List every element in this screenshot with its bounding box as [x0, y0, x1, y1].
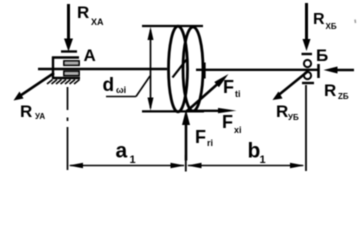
- svg-text:ХБ: ХБ: [326, 22, 337, 31]
- gear bottom line: [142, 110, 204, 112]
- label R_zB: [324, 81, 349, 101]
- svg-text:R: R: [20, 102, 32, 121]
- centerline below support A: [67, 87, 69, 170]
- svg-text:1: 1: [260, 154, 266, 166]
- svg-text:А: А: [84, 46, 96, 65]
- svg-text:ti: ti: [235, 89, 241, 99]
- svg-text:xi: xi: [234, 125, 242, 135]
- dimension b1: [188, 165, 303, 167]
- gear right ellipse: [183, 27, 203, 111]
- force F_ti arrow: [187, 74, 229, 111]
- force R_yB arrow: [273, 72, 308, 100]
- gear helix line: [173, 60, 187, 78]
- label F_xi: [222, 112, 242, 135]
- svg-text:R: R: [77, 3, 89, 22]
- svg-text:F: F: [222, 112, 233, 132]
- svg-text:R: R: [324, 81, 336, 100]
- svg-text:d: d: [103, 75, 115, 96]
- label F_ti: [223, 77, 241, 99]
- svg-text:R: R: [313, 11, 325, 28]
- force R_xB arrow: [302, 3, 313, 54]
- label F_ri: [195, 127, 213, 148]
- support B upper circle: [304, 60, 311, 67]
- support B lower tick: [302, 82, 314, 84]
- svg-text:F: F: [223, 77, 234, 97]
- svg-text:ωi: ωi: [116, 85, 126, 95]
- svg-text:R: R: [276, 102, 288, 121]
- svg-text:ХА: ХА: [91, 17, 104, 27]
- svg-text:Б: Б: [316, 46, 328, 65]
- svg-text:1: 1: [130, 154, 136, 166]
- force R_xA arrow: [61, 4, 77, 52]
- svg-text:УБ: УБ: [288, 113, 299, 122]
- svg-text:b: b: [248, 140, 261, 163]
- extension line below support B: [305, 85, 307, 171]
- force F_ri arrow: [182, 110, 190, 161]
- dimension a1: [70, 165, 184, 167]
- shaft end tick: [317, 64, 320, 78]
- shaft axis right segment: [196, 69, 318, 71]
- support B lower circle: [304, 72, 311, 79]
- label R_xA: [77, 3, 104, 27]
- svg-text:УА: УА: [35, 112, 45, 121]
- extension line below F_ri: [185, 155, 187, 172]
- support A bracket: [52, 57, 80, 79]
- svg-text:F: F: [195, 127, 206, 147]
- force R_yA arrow: [14, 73, 55, 101]
- force R_zB arrow: [324, 67, 355, 74]
- label b1: [248, 140, 266, 167]
- svg-text:ZБ: ZБ: [338, 92, 349, 101]
- label R_yB: [276, 102, 299, 122]
- dimension d_wi: [150, 30, 152, 108]
- shaft axis left segment: [38, 68, 167, 70]
- label a1: [116, 140, 136, 167]
- svg-text:a: a: [116, 140, 128, 163]
- label R_xB: [313, 11, 337, 31]
- support A hatching: [47, 80, 80, 85]
- gear top line: [142, 25, 203, 27]
- gear right face tick on axis: [203, 63, 205, 79]
- label R_yA: [20, 102, 45, 121]
- stray mark top right: [354, 20, 357, 24]
- gear left ellipse: [169, 26, 188, 112]
- svg-text:ri: ri: [207, 138, 213, 148]
- force F_xi arrow: [186, 108, 237, 113]
- label d_wi with leader: [103, 75, 127, 96]
